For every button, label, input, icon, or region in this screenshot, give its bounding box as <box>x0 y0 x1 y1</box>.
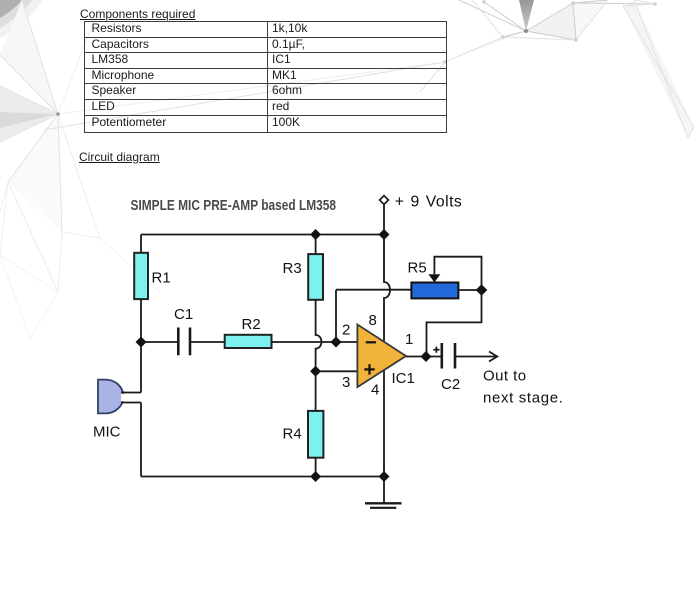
wire: +9V terminal to top rail <box>383 205 385 235</box>
wire: R1 bottom to MIC top stub <box>140 299 142 393</box>
wire: divider node down to R4 <box>315 371 317 411</box>
wire: MIC top terminal stub <box>121 392 141 394</box>
label IC1 <box>392 370 415 387</box>
svg-text:3: 3 <box>342 374 350 391</box>
wire: top supply rail <box>141 234 384 236</box>
pin label 3 <box>342 374 350 391</box>
wire: feedback from inverting node up <box>335 290 337 342</box>
wire: R4 bottom to ground rail <box>315 458 317 477</box>
pin label 1 <box>405 331 413 348</box>
top-right cluster <box>519 0 534 31</box>
pin label 4 <box>371 381 379 398</box>
wire: R5 node down, left, down to output node <box>427 290 482 357</box>
wire: R3 top <box>315 235 317 255</box>
wire: C2 to output arrow <box>455 356 497 358</box>
resistor R4 <box>308 411 323 458</box>
svg-text:C2: C2 <box>441 376 460 393</box>
svg-text:8: 8 <box>369 312 377 329</box>
svg-text:R4: R4 <box>283 426 302 443</box>
output arrowhead <box>489 352 497 362</box>
node: top rail / +9V junction <box>379 229 390 240</box>
wire: divider node to op-amp non-inverting input <box>316 370 358 372</box>
svg-text:R1: R1 <box>152 270 171 287</box>
node: top rail / R3 junction <box>310 229 321 240</box>
op-amp minus sign <box>366 341 376 343</box>
pin label 8 <box>369 312 377 329</box>
op-amp U1 (LM358 IC1) <box>357 325 406 388</box>
label R2 <box>242 316 261 333</box>
node: R4/ground rail junction <box>310 471 321 482</box>
wire: MIC bottom terminal stub <box>121 402 141 404</box>
wire: wiper up and over to R5 right node <box>434 257 481 290</box>
svg-text:R3: R3 <box>283 260 302 277</box>
wire: bottom ground rail <box>141 476 384 478</box>
+9V supply terminal <box>380 196 389 205</box>
label MIC <box>93 423 121 440</box>
node: output junction <box>421 351 432 362</box>
op-amp plus sign <box>364 364 374 374</box>
label R3 <box>283 260 302 277</box>
circuit diagram heading <box>79 150 160 164</box>
svg-text:next stage.: next stage. <box>483 389 564 406</box>
wire: top rail down to R1 <box>140 235 142 254</box>
pin label 2 <box>342 322 350 339</box>
wire: op-amp output to C2 <box>406 356 442 358</box>
wire: C1 junction to C1 <box>141 341 178 343</box>
ground symbol <box>365 503 402 508</box>
svg-text:+ 9 Volts: + 9 Volts <box>395 193 463 210</box>
potentiometer R5 <box>411 283 458 299</box>
+9V label <box>395 193 463 210</box>
C2 polarity plus <box>433 347 439 353</box>
svg-text:C1: C1 <box>174 306 193 323</box>
resistor R2 <box>225 335 272 348</box>
wire: R5 right terminal to node <box>458 289 481 291</box>
capacitor C2 <box>442 343 455 369</box>
node: R1/C1 junction <box>136 337 147 348</box>
resistor R3 <box>308 254 323 300</box>
label C2 <box>441 376 460 393</box>
components table heading <box>80 7 195 21</box>
label C1 <box>174 306 193 323</box>
svg-text:1: 1 <box>405 331 413 348</box>
microphone MK1 <box>98 380 126 414</box>
wire: feedback to R5 left (hops +9V line) <box>336 289 411 291</box>
node: ground rail / supply line junction <box>379 471 390 482</box>
R5 wiper arrow <box>429 274 441 282</box>
wire: op-amp pin 4 down to ground rail <box>383 370 385 476</box>
capacitor C1 <box>178 328 190 356</box>
wire: R2 to op-amp inverting input <box>272 341 358 343</box>
node: R5 right junction <box>476 284 488 296</box>
label R4 <box>283 426 302 443</box>
resistor R1 <box>134 253 148 299</box>
title SIMPLE MIC PRE-AMP based LM358 <box>131 198 337 214</box>
svg-text:IC1: IC1 <box>392 370 415 387</box>
wire: ground stem <box>383 477 385 503</box>
components table <box>84 21 447 133</box>
node: inverting input / feedback junction <box>331 337 342 348</box>
svg-text:4: 4 <box>371 381 379 398</box>
label R1 <box>152 270 171 287</box>
svg-text:2: 2 <box>342 322 350 339</box>
label R5 <box>408 260 427 277</box>
wire: +9V line top rail to hop to op-amp pin 8 <box>384 235 390 342</box>
svg-text:R5: R5 <box>408 260 427 277</box>
label Out to next stage <box>483 368 564 407</box>
node: R3/R4 divider to non-inverting input <box>310 366 321 377</box>
wire: R3 bottom with hop over signal wire <box>316 300 322 372</box>
svg-text:R2: R2 <box>242 316 261 333</box>
wire: C1 to R2 <box>190 341 225 343</box>
wire: MIC bottom to ground rail <box>140 403 142 477</box>
svg-text:Out to: Out to <box>483 368 527 385</box>
svg-text:SIMPLE MIC PRE-AMP based LM358: SIMPLE MIC PRE-AMP based LM358 <box>131 198 337 214</box>
svg-text:MIC: MIC <box>93 423 121 440</box>
